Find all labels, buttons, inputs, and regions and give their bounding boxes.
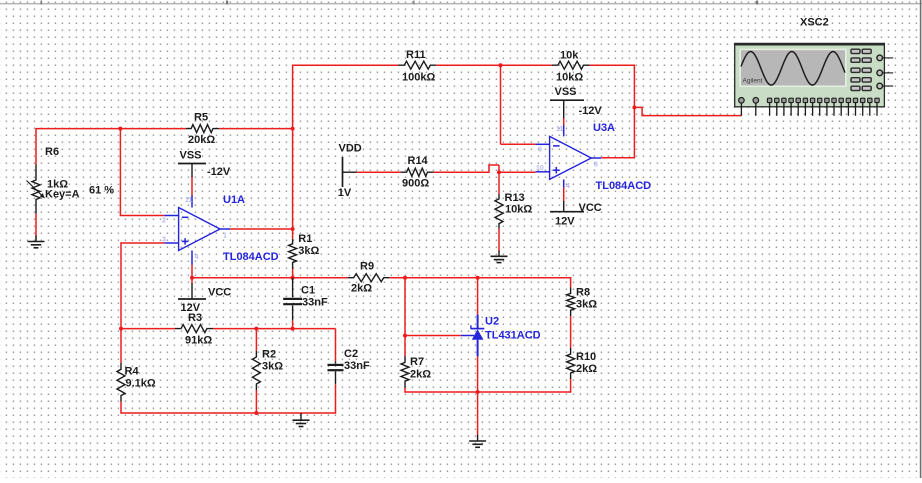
wire xyxy=(219,128,292,130)
svg-text:R3: R3 xyxy=(188,312,202,324)
resistor R7 xyxy=(401,356,431,388)
wire xyxy=(436,64,552,66)
svg-text:XSC2: XSC2 xyxy=(800,17,829,29)
ground xyxy=(293,413,310,427)
resistor R1 xyxy=(289,233,320,269)
wire xyxy=(477,392,479,436)
wire xyxy=(477,278,479,315)
svg-text:Key=A: Key=A xyxy=(45,189,80,201)
svg-text:3kΩ: 3kΩ xyxy=(298,245,319,257)
right window chrome line xyxy=(920,0,922,478)
node junction xyxy=(403,334,407,338)
power VCC 12V (U1A) xyxy=(178,278,231,314)
svg-text:R11: R11 xyxy=(406,49,426,61)
svg-text:R4: R4 xyxy=(125,366,140,378)
svg-text:9.1kΩ: 9.1kΩ xyxy=(126,378,156,390)
ground xyxy=(469,435,486,447)
wire xyxy=(357,171,401,173)
svg-text:1V: 1V xyxy=(338,187,352,199)
svg-text:VSS: VSS xyxy=(180,150,202,162)
svg-text:C2: C2 xyxy=(344,348,358,360)
svg-text:R9: R9 xyxy=(360,261,374,273)
ground xyxy=(491,251,508,263)
wire xyxy=(634,107,741,116)
svg-text:R13: R13 xyxy=(505,192,525,204)
svg-text:TL431ACD: TL431ACD xyxy=(485,330,541,342)
wire xyxy=(120,128,165,216)
svg-text:10kΩ: 10kΩ xyxy=(556,72,583,84)
svg-text:R8: R8 xyxy=(576,287,590,299)
svg-text:R1: R1 xyxy=(298,233,312,245)
svg-text:11: 11 xyxy=(556,126,564,133)
node junction xyxy=(291,276,295,280)
wire xyxy=(434,165,500,173)
resistor R13 xyxy=(495,192,532,229)
node junction xyxy=(118,127,122,131)
node junction xyxy=(291,327,295,331)
capacitor C1 xyxy=(283,278,328,321)
node junction xyxy=(291,227,295,231)
wire xyxy=(334,329,337,362)
label TL084ACD xyxy=(223,251,279,263)
node junction xyxy=(403,276,407,280)
wire xyxy=(292,229,294,239)
svg-text:U1A: U1A xyxy=(223,194,245,206)
capacitor C2 xyxy=(328,348,370,384)
resistor R4 xyxy=(117,363,156,402)
label U2 xyxy=(485,316,499,328)
wire xyxy=(498,172,500,194)
wire xyxy=(498,229,500,252)
ground xyxy=(28,236,45,248)
resistor R14 xyxy=(401,155,434,190)
wire xyxy=(390,277,571,279)
node junction xyxy=(497,170,501,174)
wire xyxy=(477,356,479,392)
resistor 10k xyxy=(552,50,590,84)
node junction xyxy=(499,63,503,67)
resistor R5 xyxy=(186,112,219,147)
wire xyxy=(191,265,193,278)
svg-text:-12V: -12V xyxy=(207,166,231,178)
wire xyxy=(36,128,186,130)
wire xyxy=(335,384,337,413)
wire xyxy=(255,329,257,351)
svg-text:3kΩ: 3kΩ xyxy=(262,361,283,373)
svg-text:10: 10 xyxy=(536,165,544,172)
wire xyxy=(570,277,572,287)
svg-text:91kΩ: 91kΩ xyxy=(185,335,212,347)
wire xyxy=(293,64,399,66)
resistor R10 xyxy=(567,348,598,379)
power VSS -12V (U3A) xyxy=(550,86,602,125)
svg-text:VCC: VCC xyxy=(208,287,231,299)
node junction xyxy=(291,127,295,131)
power VCC 12V (U3A) xyxy=(550,188,602,228)
wire xyxy=(292,65,294,230)
label U3A xyxy=(593,122,615,134)
wire xyxy=(405,391,571,393)
svg-text:9: 9 xyxy=(538,147,542,154)
shunt regulator U2 TL431ACD xyxy=(461,315,484,357)
wire xyxy=(255,390,257,413)
wire xyxy=(35,128,37,165)
wire xyxy=(404,388,406,393)
wire xyxy=(570,379,572,393)
svg-text:1: 1 xyxy=(223,233,227,240)
svg-text:U2: U2 xyxy=(485,316,499,328)
svg-text:-12V: -12V xyxy=(579,105,603,117)
wire xyxy=(120,402,122,414)
label 61% xyxy=(89,185,114,197)
wire xyxy=(405,335,461,337)
op-amp U1A xyxy=(162,195,230,265)
svg-text:10kΩ: 10kΩ xyxy=(505,204,532,216)
svg-text:R10: R10 xyxy=(576,351,596,363)
svg-text:R2: R2 xyxy=(262,349,276,361)
resistor R11 xyxy=(398,49,436,84)
node junction xyxy=(254,411,258,415)
svg-text:R6: R6 xyxy=(45,146,59,158)
wire xyxy=(121,242,164,363)
power VSS -12V (U1A) xyxy=(178,150,231,196)
svg-text:2kΩ: 2kΩ xyxy=(576,363,597,375)
wire xyxy=(292,320,294,328)
svg-text:2: 2 xyxy=(162,218,166,225)
svg-text:33nF: 33nF xyxy=(344,360,370,372)
svg-text:33nF: 33nF xyxy=(302,297,328,309)
resistor R3 xyxy=(175,312,213,347)
wire xyxy=(230,228,293,230)
svg-text:100kΩ: 100kΩ xyxy=(402,72,435,84)
wire xyxy=(292,269,294,278)
resistor R9 xyxy=(348,261,390,295)
svg-text:61 %: 61 % xyxy=(89,185,114,197)
svg-text:900Ω: 900Ω xyxy=(402,178,429,190)
svg-text:3kΩ: 3kΩ xyxy=(576,299,597,311)
node junction xyxy=(119,327,123,331)
node junction xyxy=(476,276,480,280)
svg-text:2kΩ: 2kΩ xyxy=(410,369,431,381)
wire xyxy=(570,316,572,348)
wire xyxy=(404,278,406,356)
power VDD 1V xyxy=(338,143,362,200)
svg-text:8: 8 xyxy=(594,162,598,169)
svg-text:10k: 10k xyxy=(560,50,579,62)
wire xyxy=(501,65,536,144)
wire xyxy=(35,214,37,237)
svg-text:2kΩ: 2kΩ xyxy=(351,283,372,295)
wire xyxy=(121,328,175,330)
label TL431ACD xyxy=(485,330,541,342)
svg-text:VCC: VCC xyxy=(579,202,602,214)
svg-text:11: 11 xyxy=(185,197,193,204)
svg-text:4: 4 xyxy=(566,183,570,190)
svg-text:20kΩ: 20kΩ xyxy=(188,134,215,146)
wire xyxy=(121,412,336,414)
label TL084ACD xyxy=(596,180,652,192)
op-amp U3A xyxy=(536,125,602,191)
node junction xyxy=(190,276,194,280)
oscilloscope XSC2 xyxy=(735,43,894,115)
label XSC2 xyxy=(800,17,829,29)
svg-text:VSS: VSS xyxy=(555,86,577,98)
node junction xyxy=(476,390,480,394)
svg-text:12V: 12V xyxy=(555,216,575,228)
wire xyxy=(499,171,536,173)
node junction xyxy=(632,105,636,109)
resistor R2 xyxy=(252,349,283,391)
svg-text:VDD: VDD xyxy=(339,143,362,155)
svg-text:Agilent: Agilent xyxy=(743,78,763,85)
svg-text:TL084ACD: TL084ACD xyxy=(223,251,279,263)
wire xyxy=(213,328,336,330)
potentiometer R6 xyxy=(27,146,80,214)
label U1A xyxy=(223,194,245,206)
wire xyxy=(192,277,348,279)
svg-text:C1: C1 xyxy=(301,285,315,297)
svg-text:R14: R14 xyxy=(408,155,429,167)
top window chrome line xyxy=(0,1,922,5)
node junction xyxy=(254,327,258,331)
svg-text:R5: R5 xyxy=(194,112,208,124)
svg-text:4: 4 xyxy=(195,254,199,261)
svg-text:U3A: U3A xyxy=(593,122,615,134)
svg-text:R7: R7 xyxy=(410,356,424,368)
wire xyxy=(590,65,636,158)
svg-text:TL084ACD: TL084ACD xyxy=(596,180,652,192)
resistor R8 xyxy=(567,287,598,317)
